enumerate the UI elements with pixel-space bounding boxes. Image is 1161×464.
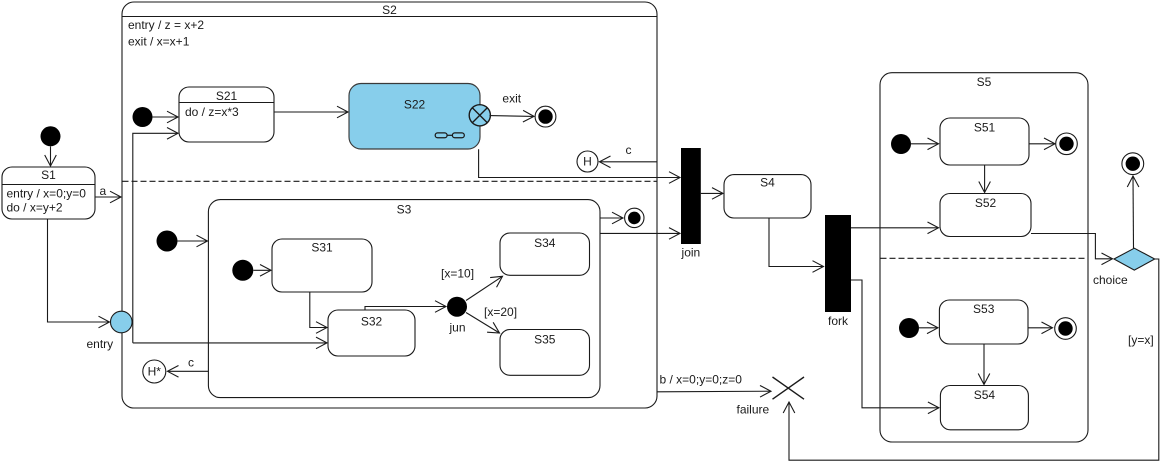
wire S1 to entry point bbox=[48, 220, 110, 323]
svg-text:a: a bbox=[100, 184, 107, 198]
wire fork to S54 bbox=[851, 280, 939, 408]
wire initial to S31 bbox=[253, 269, 271, 271]
svg-text:entry / x=0;y=0: entry / x=0;y=0 bbox=[7, 187, 87, 201]
composite state S2 bbox=[122, 2, 657, 408]
svg-text:S22: S22 bbox=[404, 98, 426, 112]
svg-text:exit: exit bbox=[502, 92, 521, 106]
state S1 bbox=[2, 167, 95, 219]
wire choice to failure bbox=[789, 259, 1159, 460]
fork bar bbox=[825, 215, 851, 312]
svg-text:b / x=0;y=0;z=0: b / x=0;y=0;z=0 bbox=[660, 373, 743, 387]
wire S31 to S32 bbox=[310, 292, 327, 328]
svg-text:S4: S4 bbox=[760, 176, 775, 190]
wire entry point to S21 bbox=[133, 133, 178, 343]
svg-text:exit / x=x+1: exit / x=x+1 bbox=[128, 35, 190, 49]
composite state S5 bbox=[880, 73, 1088, 442]
submachine icon bbox=[435, 133, 447, 138]
svg-text:S51: S51 bbox=[974, 121, 996, 135]
wire S53 to final bbox=[1028, 327, 1053, 329]
submachine state S22 bbox=[349, 84, 480, 150]
svg-text:c: c bbox=[188, 356, 194, 370]
svg-text:choice: choice bbox=[1093, 273, 1128, 287]
junction jun bbox=[447, 297, 467, 317]
svg-text:entry: entry bbox=[87, 337, 114, 351]
state S53 bbox=[939, 300, 1028, 344]
transition a: S1 to S2 bbox=[95, 196, 121, 198]
svg-text:S35: S35 bbox=[534, 333, 556, 347]
wire S53 to S54 bbox=[983, 344, 985, 384]
transition jun to S35 bbox=[466, 313, 500, 334]
state S34 bbox=[500, 233, 590, 275]
initial state S3 bbox=[232, 260, 253, 281]
exit point pseudostate bbox=[469, 105, 490, 126]
deep history H* bbox=[143, 360, 166, 383]
wire choice to final bbox=[1132, 176, 1135, 248]
svg-text:H: H bbox=[583, 155, 592, 169]
S5 region divider bbox=[881, 257, 1088, 259]
wire S4 to fork bbox=[769, 218, 824, 267]
wire fork to S52 bbox=[851, 227, 939, 229]
state S31 bbox=[272, 239, 372, 292]
S2 title separator bbox=[122, 16, 657, 18]
final state S5 upper region bbox=[1056, 133, 1078, 155]
svg-text:fork: fork bbox=[828, 314, 849, 328]
wire S22 to join bbox=[479, 149, 680, 177]
initial state S2 lower region bbox=[157, 231, 178, 252]
wire join to S4 bbox=[701, 192, 723, 194]
svg-text:do / x=y+2: do / x=y+2 bbox=[7, 201, 63, 215]
state S52 bbox=[940, 194, 1031, 237]
wire S32 to junction bbox=[365, 307, 446, 311]
final state top right bbox=[1122, 153, 1144, 175]
svg-text:S34: S34 bbox=[534, 236, 556, 250]
svg-text:S5: S5 bbox=[977, 75, 992, 89]
svg-text:[y=x]: [y=x] bbox=[1128, 333, 1154, 347]
wire initial to S3 bbox=[178, 240, 208, 242]
wire initial to S51 bbox=[911, 143, 939, 145]
svg-text:c: c bbox=[626, 143, 632, 157]
svg-text:[x=10]: [x=10] bbox=[441, 267, 474, 281]
transition c to H* bbox=[168, 370, 209, 372]
S2 region divider bbox=[123, 180, 657, 182]
final state S2 upper region bbox=[535, 106, 556, 127]
composite state S3 bbox=[208, 200, 600, 398]
state S21 bbox=[179, 87, 274, 142]
wire S51 to final bbox=[1029, 143, 1055, 145]
final state S5 lower region bbox=[1055, 318, 1077, 340]
state S32 bbox=[328, 310, 415, 356]
svg-text:jun: jun bbox=[449, 321, 466, 335]
svg-text:failure: failure bbox=[737, 403, 770, 417]
svg-text:S52: S52 bbox=[975, 196, 997, 210]
entry point pseudostate bbox=[111, 311, 133, 333]
wire S3 to final lower bbox=[600, 217, 623, 219]
wire S3 to join bbox=[600, 232, 680, 234]
initial state S2 upper region bbox=[133, 107, 153, 127]
svg-text:[x=20]: [x=20] bbox=[484, 305, 517, 319]
wire initial to S53 bbox=[919, 327, 938, 329]
state S4 bbox=[724, 175, 811, 218]
transition b to failure bbox=[657, 390, 771, 393]
svg-text:entry / z = x+2: entry / z = x+2 bbox=[128, 18, 204, 32]
wire initial to S21 bbox=[153, 116, 179, 118]
svg-text:H*: H* bbox=[148, 365, 162, 379]
svg-text:S3: S3 bbox=[397, 203, 412, 217]
initial state S5 upper region bbox=[891, 134, 911, 154]
initial state S5 lower region bbox=[899, 318, 919, 338]
terminate failure bbox=[773, 377, 805, 399]
svg-text:S53: S53 bbox=[973, 302, 995, 316]
svg-text:S1: S1 bbox=[41, 168, 56, 182]
transition exit point to final bbox=[490, 115, 535, 118]
svg-text:S21: S21 bbox=[216, 89, 238, 103]
wire S52 to choice bbox=[1031, 234, 1113, 259]
transition jun to S34 bbox=[466, 276, 503, 300]
svg-text:S54: S54 bbox=[974, 388, 996, 402]
wire initial to S1 bbox=[50, 146, 52, 166]
final state S2 lower region bbox=[625, 208, 644, 227]
svg-text:S2: S2 bbox=[382, 3, 397, 17]
wire S51 to S52 bbox=[984, 165, 986, 193]
svg-text:S31: S31 bbox=[311, 241, 333, 255]
shallow history H bbox=[577, 151, 598, 172]
svg-text:join: join bbox=[681, 246, 701, 260]
transition c to H bbox=[600, 161, 658, 163]
svg-text:S32: S32 bbox=[361, 315, 383, 329]
wire entry point to S32 bbox=[133, 342, 327, 344]
transition S21 to S22 bbox=[274, 111, 348, 113]
state S51 bbox=[940, 118, 1029, 165]
join bar bbox=[681, 148, 701, 244]
state S54 bbox=[940, 386, 1028, 430]
state S35 bbox=[500, 330, 590, 376]
initial state top-level bbox=[41, 126, 61, 146]
choice pseudostate bbox=[1114, 248, 1155, 270]
svg-text:do / z=x*3: do / z=x*3 bbox=[185, 105, 239, 119]
